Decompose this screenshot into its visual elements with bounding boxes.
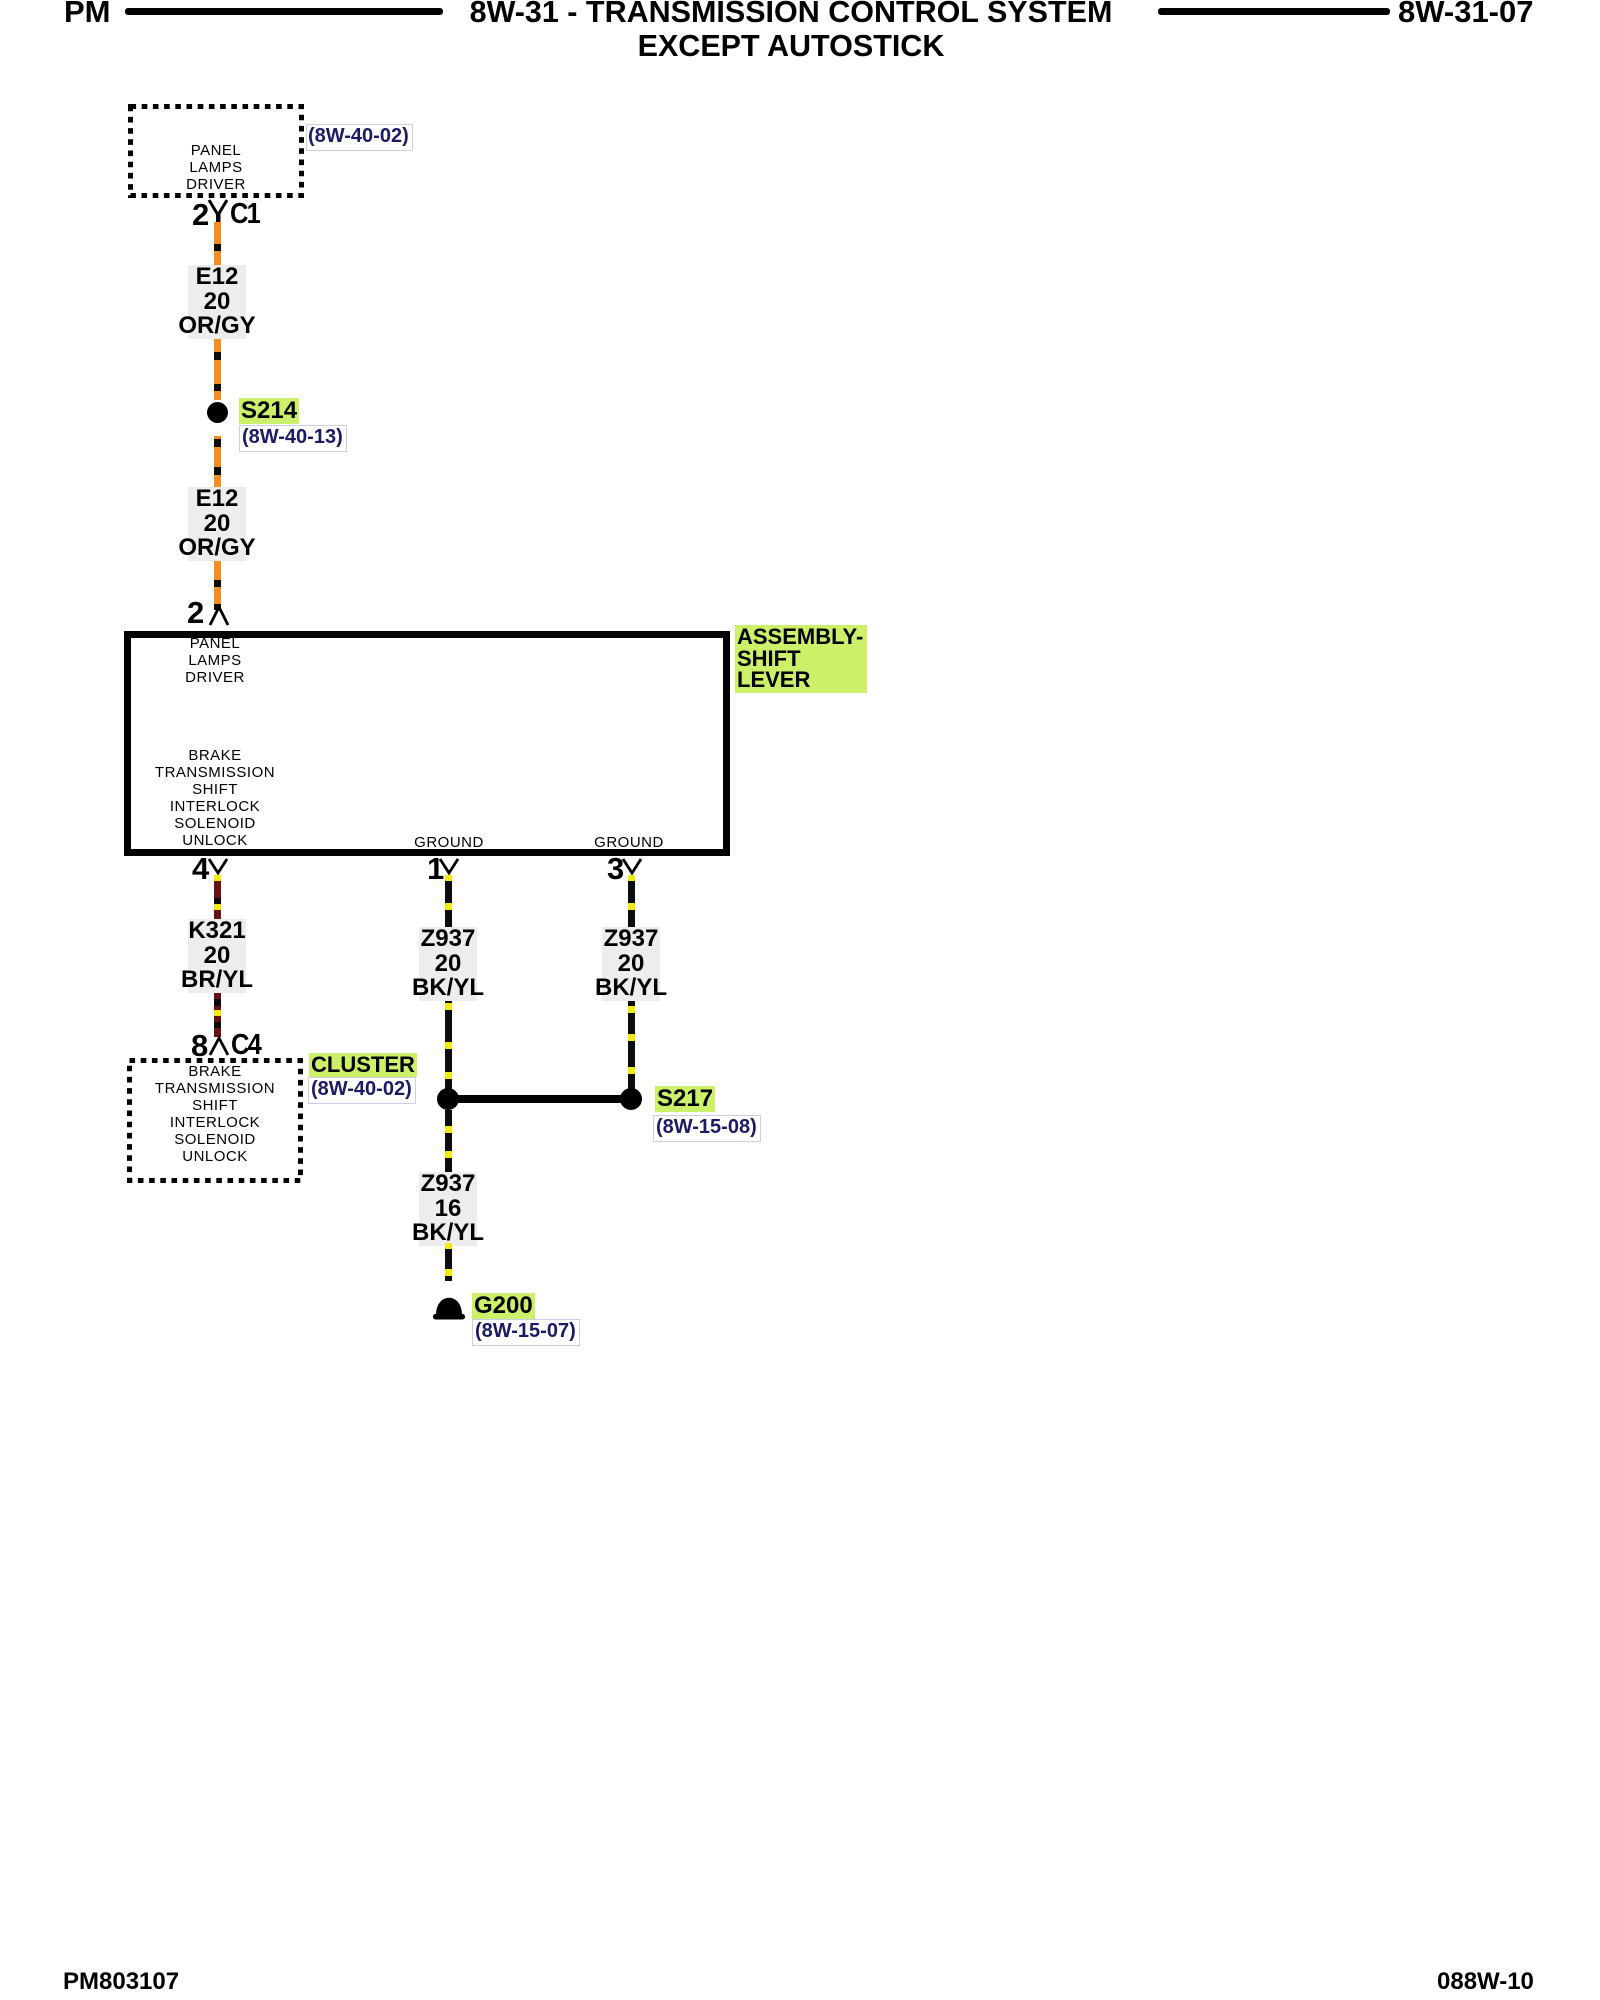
wire Z937 pin3 lower segment [628, 1001, 635, 1089]
pin 2 label (shift lever) [187, 597, 204, 628]
wire Z937 pin1 lower segment [445, 1001, 452, 1089]
wire Z937 to ground G200 [445, 1243, 452, 1281]
wire label E12 20 OR/GY (lower) [188, 487, 246, 561]
pin label C1 [230, 199, 259, 230]
wire label Z937 20 BK/YL (pin 3) [602, 927, 660, 1001]
splice S217 junction dot right [620, 1088, 642, 1110]
splice label S217 [655, 1086, 715, 1112]
ground label G200 [472, 1293, 535, 1319]
component name ASSEMBLY- SHIFT LEVER [735, 625, 867, 693]
connector symbol Y at C1 [205, 198, 231, 225]
wire label Z937 20 BK/YL (pin 1) [419, 927, 477, 1001]
reference (8W-15-08) [653, 1115, 761, 1142]
wire Z937 pin3 upper segment (BK/YL) [628, 875, 635, 927]
footer left PM803107 [63, 1970, 179, 1994]
header rule left [125, 8, 443, 15]
label PANEL LAMPS DRIVER [136, 142, 296, 193]
header subtitle EXCEPT AUTOSTICK [0, 31, 1582, 62]
label PANEL LAMPS DRIVER (inside box) [135, 635, 295, 686]
header label 8W-31-07 [1398, 0, 1534, 27]
header title [0, 0, 1582, 28]
connector symbol caret into shift lever box [207, 604, 231, 627]
wire splice jumper (horizontal) [448, 1095, 632, 1103]
wire Z937 below splice (16 ga) [445, 1110, 452, 1172]
footer right 088W-10 [1437, 1970, 1534, 1994]
wire label Z937 16 BK/YL [419, 1172, 477, 1246]
wire segment below splice S214 [214, 436, 221, 487]
header rule right [1158, 8, 1390, 15]
connector symbol caret at C4 [207, 1035, 231, 1057]
connector symbol V pin 3 [620, 858, 644, 875]
pin 8 label [191, 1030, 208, 1061]
reference (8W-40-13) [239, 425, 347, 452]
label BRAKE TRANSMISSION SHIFT INTERLOCK SOLENOID UNLOCK (inside box) [135, 747, 295, 849]
splice label S214 [239, 398, 299, 424]
connector box BRAKE TRANSMISSION SHIFT INTERLOCK SOLENOID UNLOCK (dashed) [127, 1058, 303, 1183]
pin 2 label [192, 199, 209, 230]
wire K321 lower segment [214, 993, 221, 1037]
wire K321 upper segment (BR/YL maroon) [214, 875, 221, 919]
label GROUND (pin 1) [369, 834, 529, 851]
wire Z937 pin1 upper segment (BK/YL) [445, 875, 452, 927]
wire E12 upper segment (orange OR/GY) [214, 222, 221, 266]
component name CLUSTER [309, 1053, 417, 1077]
pin label C4 [231, 1030, 260, 1061]
pin 1 label [427, 853, 444, 884]
header label PM [64, 0, 111, 27]
splice S217 junction dot left [437, 1088, 459, 1110]
connector symbol V pin 1 [437, 858, 461, 875]
pin 4 label [192, 853, 209, 884]
connector box PANEL LAMPS DRIVER (dashed, 8W-40-02) [128, 104, 304, 198]
wire label E12 20 OR/GY (upper) [188, 265, 246, 339]
reference (8W-40-02) top [306, 124, 413, 151]
wire label K321 20 BR/YL [188, 919, 246, 993]
wire segment below first E12 label [214, 339, 221, 400]
reference (8W-15-07) [472, 1319, 580, 1346]
splice S214 dot [207, 402, 228, 423]
label BRAKE TRANSMISSION SHIFT INTERLOCK SOLENOID UNLOCK (dashed box) [135, 1063, 295, 1165]
label GROUND (pin 3) [549, 834, 709, 851]
ground symbol G200 [432, 1294, 466, 1321]
pin 3 label [607, 853, 624, 884]
wire segment above shift lever box [214, 561, 221, 610]
connector symbol V pin 4 [206, 858, 230, 875]
reference (8W-40-02) cluster [308, 1077, 416, 1104]
component box ASSEMBLY-SHIFT LEVER [124, 631, 730, 856]
